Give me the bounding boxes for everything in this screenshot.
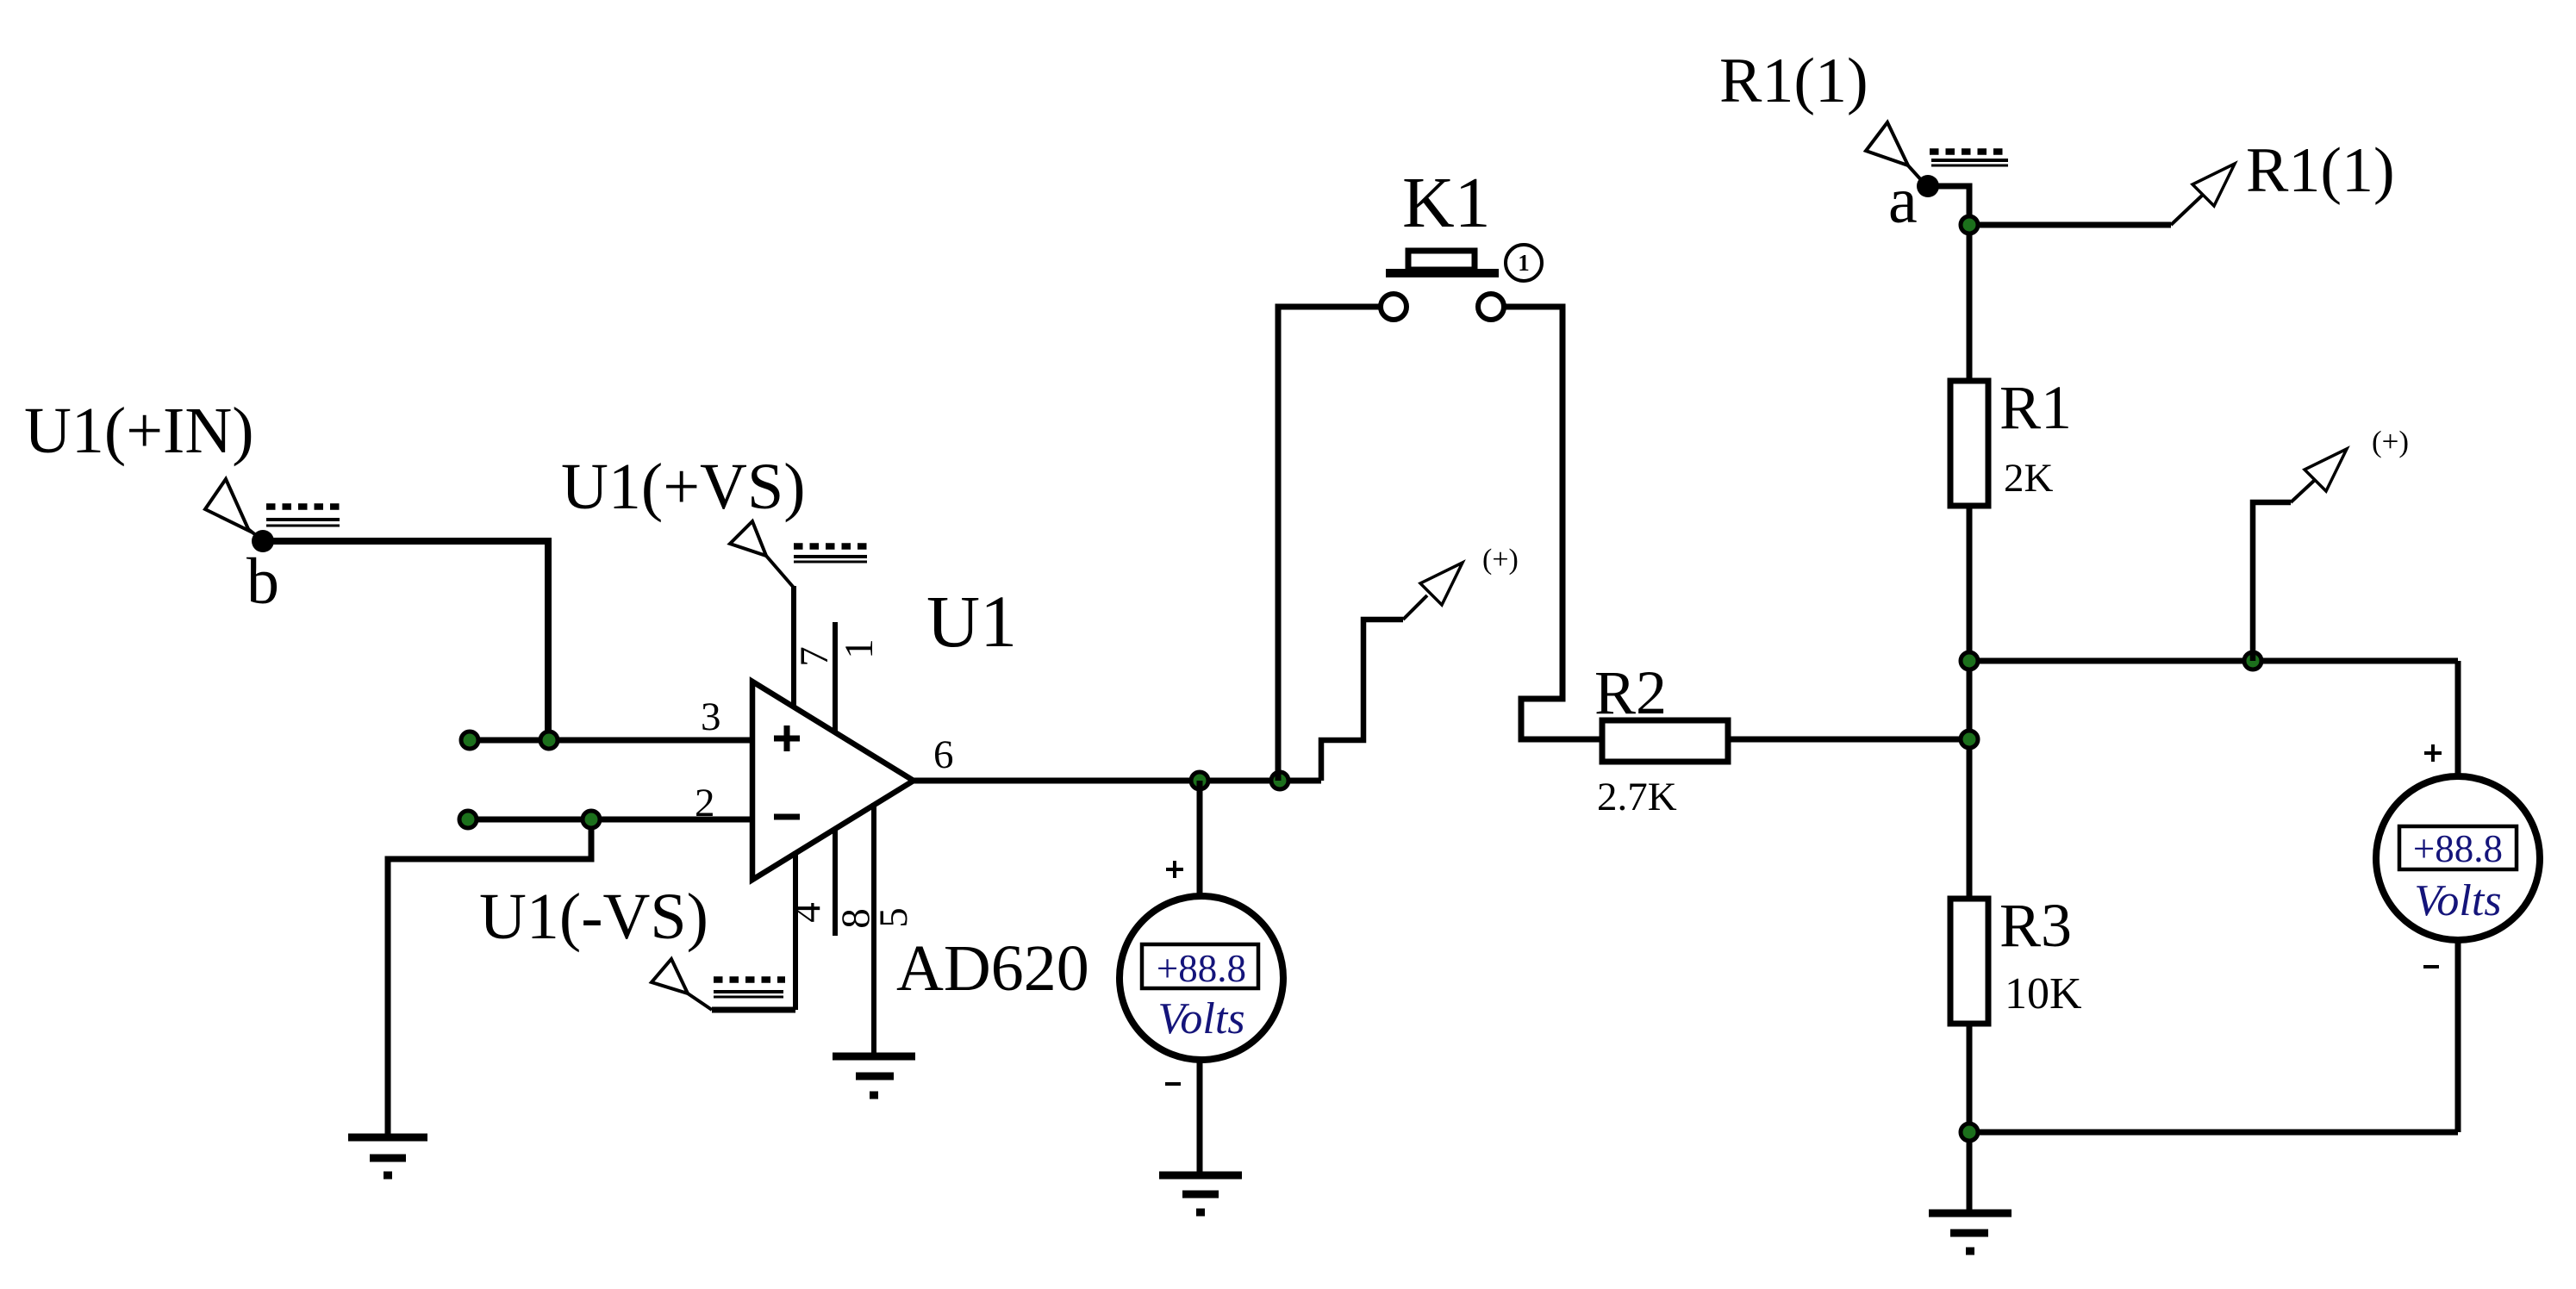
svg-text:2K: 2K — [2004, 456, 2054, 501]
net marker at U1(+VS) — [794, 546, 867, 562]
ground (R3 / divider) — [1929, 1213, 2012, 1251]
svg-text:+88.8: +88.8 — [1157, 947, 1246, 990]
svg-text:7: 7 — [792, 646, 837, 667]
svg-text:2: 2 — [695, 781, 715, 825]
junction R3 bottom — [1961, 1124, 1978, 1141]
probe arrow U1(-VS) — [652, 959, 712, 1010]
push button K1 key indicator — [1506, 245, 1542, 281]
svg-text:a: a — [1888, 165, 1918, 237]
wire voltmeter2 plus lead — [2455, 661, 2461, 776]
svg-text:3: 3 — [701, 694, 721, 739]
probe arrow R1(1) top — [1866, 122, 1924, 183]
push button K1 cap — [1408, 251, 1475, 270]
push button K1 terminal right — [1478, 294, 1504, 320]
probe R1(1) right : arrowhead — [2192, 164, 2235, 206]
pin 8 wire — [833, 827, 838, 936]
svg-text:1: 1 — [837, 638, 882, 659]
push button K1 terminal left — [1381, 294, 1407, 320]
junction R2 node — [1961, 731, 1978, 748]
wire voltmeter2 minus lead — [2455, 940, 2461, 1132]
node a — [1917, 175, 1939, 197]
pin 7 wire — [791, 586, 796, 710]
probe (+) right : tail — [2291, 480, 2315, 502]
op-amp U1 — [752, 682, 914, 880]
junction divider left — [1961, 652, 1978, 669]
voltmeter XMM2 minus sign — [2423, 965, 2439, 968]
ground (pin 5) — [833, 1056, 915, 1095]
svg-text:R3: R3 — [1999, 891, 2072, 960]
junction pin2 — [583, 811, 600, 828]
svg-text:U1: U1 — [926, 580, 1017, 663]
wire b to pin3 — [263, 541, 548, 740]
svg-text:AD620: AD620 — [896, 932, 1089, 1005]
net marker at a — [1930, 152, 2009, 165]
resistor R3 — [1950, 899, 1988, 1024]
svg-text:Volts: Volts — [2414, 876, 2501, 925]
wire bottom to voltmeter2 minus — [1969, 1130, 2458, 1136]
svg-text:10K: 10K — [2005, 969, 2082, 1018]
svg-text:(+): (+) — [2372, 425, 2409, 458]
push button K1 base bar — [1386, 269, 1499, 277]
svg-text:5: 5 — [871, 907, 916, 928]
wire voltmeter1 minus lead — [1197, 1059, 1203, 1172]
voltmeter XMM2 plus sign — [2424, 744, 2442, 762]
svg-text:R2: R2 — [1594, 658, 1667, 727]
ground (voltmeter XMM1) — [1159, 1175, 1242, 1212]
svg-text:U1(-VS): U1(-VS) — [479, 881, 708, 953]
wire node a branch right — [1969, 222, 2171, 228]
wire U1(-VS) to pin 4 — [712, 1007, 795, 1013]
svg-text:R1: R1 — [1999, 373, 2072, 442]
wire pin 2 — [468, 817, 752, 823]
wire R1 to R3 — [1967, 506, 1973, 899]
junction node a — [1961, 216, 1978, 234]
junction output K1 — [1271, 772, 1288, 789]
probe (+) on output : tail — [1403, 595, 1427, 620]
wire pin2 to ground — [388, 819, 591, 1134]
svg-text:(+): (+) — [1482, 544, 1519, 576]
pin 5 wire — [871, 803, 876, 1053]
wire op-amp output — [914, 778, 1321, 784]
junction pin3 — [540, 732, 558, 749]
wire node a down to R1 — [1928, 186, 1969, 381]
svg-text:b: b — [246, 545, 279, 618]
probe arrow U1(+VS) — [730, 521, 794, 588]
wire pin 3 — [470, 738, 752, 744]
voltmeter XMM1 minus sign — [1165, 1082, 1181, 1086]
svg-text:1: 1 — [1518, 250, 1530, 276]
net marker at b — [266, 507, 340, 526]
junction divider probe — [2244, 652, 2261, 669]
svg-text:2.7K: 2.7K — [1597, 775, 1677, 819]
svg-text:4: 4 — [784, 902, 829, 923]
svg-text:R1(1): R1(1) — [1719, 46, 1868, 116]
ground (inverting input) — [348, 1137, 427, 1175]
probe (+) on output : arrowhead — [1420, 563, 1463, 605]
wire voltmeter1 plus lead — [1197, 781, 1203, 897]
net marker at U1(-VS) — [714, 980, 785, 997]
pin 4 wire — [793, 851, 798, 1010]
voltmeter XMM1 plus sign — [1166, 861, 1183, 878]
pin 1 wire — [833, 622, 838, 733]
wire R3 bottom — [1967, 1024, 1973, 1210]
svg-text:U1(+VS): U1(+VS) — [561, 451, 806, 523]
wire R2 right — [1728, 737, 1969, 743]
junction output voltmeter — [1191, 772, 1208, 789]
svg-text:+88.8: +88.8 — [2413, 827, 2503, 870]
probe (+) right : arrowhead — [2305, 449, 2347, 491]
probe (+) on output : zigzag — [1321, 620, 1403, 781]
svg-text:K1: K1 — [1402, 163, 1491, 243]
svg-text:R1(1): R1(1) — [2246, 135, 2395, 206]
node b — [252, 530, 274, 552]
voltmeter XMM1 — [1120, 896, 1283, 1060]
wire divider to voltmeter2 top — [1969, 658, 2458, 664]
svg-text:U1(+IN): U1(+IN) — [24, 395, 254, 467]
probe arrow U1(+IN) — [205, 479, 261, 539]
wire K1 left — [1278, 307, 1381, 781]
resistor R2 — [1602, 720, 1728, 762]
svg-text:6: 6 — [933, 732, 954, 777]
probe (+) right : zigzag — [2253, 502, 2291, 661]
voltmeter XMM2 — [2376, 776, 2540, 940]
junction pin2 left — [459, 811, 477, 828]
probe R1(1) right : tail — [2171, 195, 2203, 225]
svg-text:Volts: Volts — [1157, 994, 1244, 1043]
resistor R1 — [1950, 381, 1988, 506]
junction pin3 left — [461, 732, 478, 749]
wire K1 right to R2 — [1504, 307, 1602, 739]
